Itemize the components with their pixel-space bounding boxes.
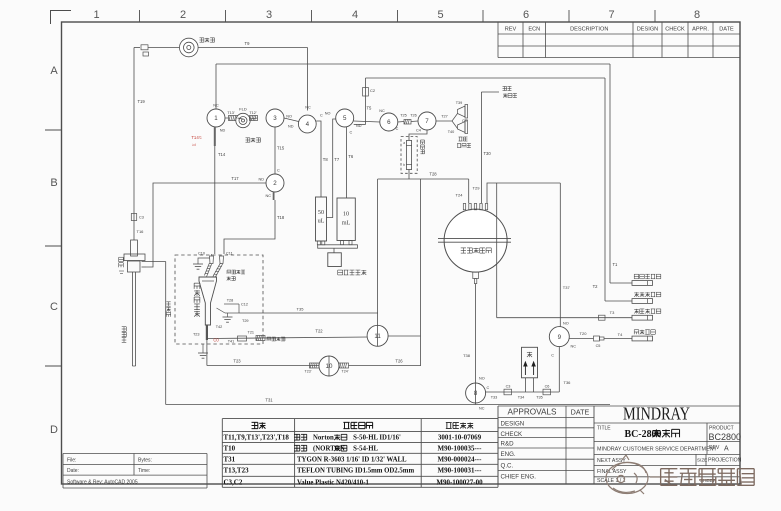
svg-text:BC2800: BC2800 <box>709 432 742 442</box>
svg-text:NC: NC <box>213 104 219 108</box>
svg-text:a: a <box>403 141 405 145</box>
svg-text:DESIGN: DESIGN <box>501 421 525 428</box>
svg-text:MINDRAY: MINDRAY <box>623 404 690 424</box>
svg-text:FINAL ASSY: FINAL ASSY <box>597 469 627 475</box>
svg-text:T5: T5 <box>367 106 373 111</box>
svg-text:T35: T35 <box>536 396 543 400</box>
svg-text:(NORTON: (NORTON <box>313 446 345 453</box>
svg-text:M90-100027-00: M90-100027-00 <box>436 479 483 487</box>
svg-text:C11: C11 <box>226 252 233 256</box>
svg-text:T15: T15 <box>277 146 285 151</box>
svg-text:T22: T22 <box>315 329 323 334</box>
svg-text:C: C <box>277 169 280 173</box>
svg-text:T40: T40 <box>448 130 455 134</box>
svg-text:50: 50 <box>318 209 324 216</box>
svg-text:T20: T20 <box>580 331 588 336</box>
svg-text:S-54-HL: S-54-HL <box>353 446 378 453</box>
svg-text:APPROVALS: APPROVALS <box>508 408 558 417</box>
svg-text:DATE: DATE <box>571 408 590 417</box>
svg-text:T42: T42 <box>216 325 223 329</box>
svg-text:C: C <box>487 386 490 390</box>
svg-text:R&D: R&D <box>501 441 515 448</box>
svg-text:↓d: ↓d <box>191 142 195 147</box>
svg-text:1: 1 <box>214 115 218 122</box>
svg-text:M90-000024---: M90-000024--- <box>438 456 483 464</box>
svg-text:B: B <box>50 177 57 189</box>
svg-text:Bytes:: Bytes: <box>138 457 152 463</box>
svg-text:Norton: Norton <box>313 435 334 442</box>
svg-text:3: 3 <box>266 9 272 21</box>
svg-text:FLD: FLD <box>239 107 247 112</box>
svg-text:T4: T4 <box>618 332 623 337</box>
svg-text:C: C <box>350 131 353 135</box>
svg-text:7: 7 <box>425 118 429 125</box>
svg-text:T23': T23' <box>305 370 312 374</box>
svg-text:NC: NC <box>379 109 385 113</box>
svg-text:10: 10 <box>343 211 349 218</box>
svg-text:NO: NO <box>286 115 292 119</box>
svg-text:C: C <box>551 354 554 358</box>
svg-text:T29: T29 <box>473 186 481 191</box>
svg-text:PROJECTION: PROJECTION <box>708 458 742 464</box>
svg-text:APPR.: APPR. <box>692 27 709 33</box>
svg-text:T31: T31 <box>265 398 273 403</box>
svg-text:M90-100031---: M90-100031--- <box>438 467 483 475</box>
svg-text:6: 6 <box>387 119 391 126</box>
svg-text:3001-10-07069: 3001-10-07069 <box>438 434 482 442</box>
svg-text:T23: T23 <box>193 333 200 337</box>
svg-text:CHECK: CHECK <box>501 431 524 438</box>
svg-text:T18: T18 <box>277 215 285 220</box>
svg-text:7: 7 <box>608 9 614 21</box>
svg-text:T2: T2 <box>593 284 599 289</box>
svg-text:T3: T3 <box>610 310 615 315</box>
svg-text:10: 10 <box>326 363 333 370</box>
svg-text:MINDRAY CUSTOMER SERVICE DE: MINDRAY CUSTOMER SERVICE DEPARTMENT <box>597 447 718 453</box>
svg-text:Value Plastic N420/410-1: Value Plastic N420/410-1 <box>297 480 369 487</box>
svg-text:C5: C5 <box>596 344 601 348</box>
svg-text:T27: T27 <box>441 115 448 119</box>
svg-text:T16: T16 <box>137 229 145 234</box>
svg-text:ND: ND <box>288 125 294 129</box>
svg-text:REV: REV <box>505 27 517 33</box>
svg-text:b: b <box>403 163 405 167</box>
svg-text:6: 6 <box>523 9 529 21</box>
svg-text:NC: NC <box>266 194 272 198</box>
svg-text:T14: T14 <box>218 152 226 157</box>
svg-text:T8: T8 <box>323 157 329 162</box>
svg-text:T1: T1 <box>613 262 619 267</box>
svg-text:T21: T21 <box>248 331 255 335</box>
svg-text:T17: T17 <box>231 176 239 181</box>
svg-text:T13,T23: T13,T23 <box>224 467 250 475</box>
svg-text:TYGON R-3603 1/16' ID 1/32' W: TYGON R-3603 1/16' ID 1/32' WALL <box>297 457 407 464</box>
svg-text:C: C <box>320 114 323 118</box>
svg-text:CHECK: CHECK <box>665 27 685 33</box>
svg-text:T26: T26 <box>410 114 417 118</box>
svg-text:Date:: Date: <box>67 468 79 474</box>
svg-text:T10: T10 <box>224 445 236 453</box>
svg-text:C: C <box>396 127 399 131</box>
svg-text:T28: T28 <box>429 172 437 177</box>
svg-text:NC: NC <box>571 345 577 349</box>
svg-text:uL: uL <box>318 218 325 225</box>
svg-text:REV: REV <box>709 445 720 451</box>
svg-text:4: 4 <box>306 121 310 128</box>
svg-text:8: 8 <box>694 9 700 21</box>
svg-text:NO: NO <box>325 112 331 116</box>
svg-text:M90-100035---: M90-100035--- <box>438 445 483 453</box>
svg-text:T24': T24' <box>342 370 349 374</box>
svg-text:2: 2 <box>273 180 277 187</box>
svg-text:C4: C4 <box>416 129 421 133</box>
svg-text:T12': T12' <box>249 111 257 115</box>
svg-text:T7: T7 <box>334 157 340 162</box>
svg-text:C10: C10 <box>198 252 205 256</box>
svg-text:TITLE: TITLE <box>597 426 611 432</box>
svg-text:ENG.: ENG. <box>501 451 516 458</box>
svg-text:Software & Rev: AutoCAD 2005: Software & Rev: AutoCAD 2005 <box>67 480 138 486</box>
svg-text:T39: T39 <box>456 101 463 105</box>
svg-text:T37: T37 <box>563 285 571 290</box>
svg-text:T34: T34 <box>518 396 525 400</box>
svg-text:T14'c: T14'c <box>191 135 202 140</box>
svg-text:TEFLON TUBING ID1.5mm OD2.5mm: TEFLON TUBING ID1.5mm OD2.5mm <box>297 468 414 475</box>
svg-text:C2: C2 <box>370 88 376 93</box>
svg-text:3: 3 <box>273 115 277 122</box>
svg-text:9: 9 <box>558 334 562 341</box>
svg-text:SIZE: SIZE <box>697 458 707 463</box>
svg-text:4: 4 <box>352 9 358 21</box>
svg-text:T29: T29 <box>242 319 249 323</box>
svg-text:T36: T36 <box>564 380 572 385</box>
svg-text:DESCRIPTION: DESCRIPTION <box>570 27 608 33</box>
svg-text:C0: C0 <box>213 338 219 343</box>
svg-text:T26: T26 <box>395 359 403 364</box>
svg-text:T25: T25 <box>400 114 407 118</box>
svg-text:NC: NC <box>479 407 485 411</box>
svg-text:T11,T9,T13',T23',T18: T11,T9,T13',T23',T18 <box>224 434 290 442</box>
svg-text:ND: ND <box>356 124 362 128</box>
svg-text:NO: NO <box>563 322 569 326</box>
svg-text:C3: C3 <box>139 216 144 220</box>
svg-text:T30: T30 <box>484 151 492 156</box>
svg-text:T19: T19 <box>138 99 146 104</box>
svg-text:NC: NC <box>305 106 311 110</box>
svg-text:T31: T31 <box>224 456 236 464</box>
svg-text:ND: ND <box>220 129 226 133</box>
svg-text:NO: NO <box>479 377 485 381</box>
svg-text:T23: T23 <box>233 359 241 364</box>
svg-text:1: 1 <box>93 9 99 21</box>
svg-text:T33: T33 <box>491 396 498 400</box>
svg-text:Q.C.: Q.C. <box>501 462 514 469</box>
svg-text:mL: mL <box>342 220 351 227</box>
svg-text:A: A <box>50 65 58 77</box>
svg-text:DESIGN: DESIGN <box>637 27 658 33</box>
svg-text:ECN: ECN <box>528 27 540 33</box>
svg-text:T9: T9 <box>245 41 251 46</box>
svg-text:8: 8 <box>474 390 478 397</box>
svg-text:S-50-HL ID1/16': S-50-HL ID1/16' <box>353 435 401 442</box>
svg-text:C6: C6 <box>545 385 550 389</box>
svg-text:C12: C12 <box>241 303 248 307</box>
svg-text:5: 5 <box>343 115 347 122</box>
svg-text:T41: T41 <box>228 340 235 344</box>
svg-text:T35: T35 <box>297 307 305 312</box>
svg-text:T13': T13' <box>227 111 235 115</box>
svg-text:5: 5 <box>437 9 443 21</box>
svg-text:D: D <box>50 424 58 436</box>
svg-text:T24: T24 <box>456 193 464 198</box>
svg-text:C9: C9 <box>462 119 467 123</box>
svg-text:C3,C2: C3,C2 <box>224 479 243 487</box>
svg-text:T6: T6 <box>348 154 354 159</box>
svg-text:ND: ND <box>259 178 265 182</box>
svg-text:C3: C3 <box>506 385 511 389</box>
svg-text:PRODUCT: PRODUCT <box>709 426 734 432</box>
svg-text:T38: T38 <box>463 353 471 358</box>
svg-text:A: A <box>724 446 729 453</box>
svg-text:Time:: Time: <box>138 468 150 474</box>
svg-text:File:: File: <box>67 457 76 463</box>
svg-text:T28: T28 <box>227 299 234 303</box>
svg-text:C: C <box>50 301 58 313</box>
svg-text:11: 11 <box>374 333 381 340</box>
svg-text:DATE: DATE <box>719 27 734 33</box>
svg-text:2: 2 <box>180 9 186 21</box>
svg-text:CHIEF ENG.: CHIEF ENG. <box>501 474 537 481</box>
